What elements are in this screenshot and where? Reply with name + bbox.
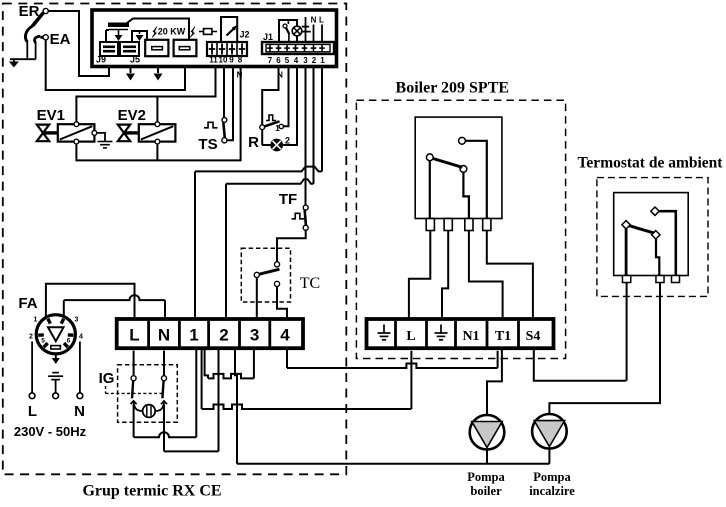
svg-text:1: 1 <box>34 317 38 324</box>
svg-text:L: L <box>319 16 324 25</box>
svg-text:N: N <box>158 326 170 345</box>
svg-text:9: 9 <box>229 56 234 65</box>
svg-text:N: N <box>277 71 283 80</box>
svg-text:5: 5 <box>41 338 45 345</box>
svg-text:3: 3 <box>75 317 79 324</box>
svg-text:EV2: EV2 <box>118 107 146 124</box>
svg-text:3: 3 <box>303 56 308 65</box>
svg-text:TC: TC <box>300 275 320 292</box>
svg-text:J5: J5 <box>130 55 140 65</box>
svg-text:11: 11 <box>209 56 218 65</box>
svg-text:N: N <box>311 16 317 25</box>
svg-text:EA: EA <box>50 31 71 48</box>
svg-text:L: L <box>406 329 415 344</box>
svg-text:boiler: boiler <box>470 484 502 498</box>
svg-text:L: L <box>28 403 37 420</box>
svg-text:4: 4 <box>79 334 83 341</box>
svg-text:L: L <box>129 326 139 345</box>
svg-text:S4: S4 <box>526 329 541 344</box>
svg-text:EV1: EV1 <box>37 107 65 124</box>
svg-text:6: 6 <box>276 56 281 65</box>
svg-text:3: 3 <box>250 326 259 345</box>
svg-text:TS: TS <box>198 136 217 153</box>
svg-text:Grup termic RX CE: Grup termic RX CE <box>82 483 221 500</box>
svg-text:incalzire: incalzire <box>529 484 575 498</box>
svg-text:Pompa: Pompa <box>467 470 505 484</box>
svg-text:Termostat de ambient: Termostat de ambient <box>578 155 724 172</box>
svg-text:1: 1 <box>320 56 325 65</box>
svg-text:J2: J2 <box>239 30 249 40</box>
svg-text:J1: J1 <box>263 32 273 42</box>
svg-text:N: N <box>74 403 85 420</box>
svg-text:4: 4 <box>280 326 290 345</box>
svg-text:R: R <box>248 134 259 151</box>
svg-text:1: 1 <box>189 326 198 345</box>
svg-text:6: 6 <box>67 338 71 345</box>
svg-text:N: N <box>237 71 243 80</box>
svg-text:4: 4 <box>294 56 299 65</box>
svg-text:20 KW: 20 KW <box>158 27 186 37</box>
svg-text:TF: TF <box>279 191 297 208</box>
svg-text:T1: T1 <box>495 329 511 344</box>
svg-text:FA: FA <box>18 295 37 312</box>
svg-text:Boiler 209 SPTE: Boiler 209 SPTE <box>396 80 510 97</box>
svg-text:2: 2 <box>219 326 228 345</box>
svg-text:2: 2 <box>29 334 33 341</box>
svg-text:8: 8 <box>238 56 243 65</box>
svg-text:IG: IG <box>99 370 115 387</box>
svg-text:5: 5 <box>285 56 290 65</box>
svg-text:10: 10 <box>219 56 228 65</box>
svg-text:230V - 50Hz: 230V - 50Hz <box>14 424 87 439</box>
svg-text:7: 7 <box>268 56 273 65</box>
svg-text:2: 2 <box>312 56 317 65</box>
svg-text:N1: N1 <box>462 329 479 344</box>
svg-text:J9: J9 <box>96 55 106 65</box>
svg-text:ER: ER <box>19 3 40 20</box>
svg-text:Pompa: Pompa <box>533 470 571 484</box>
